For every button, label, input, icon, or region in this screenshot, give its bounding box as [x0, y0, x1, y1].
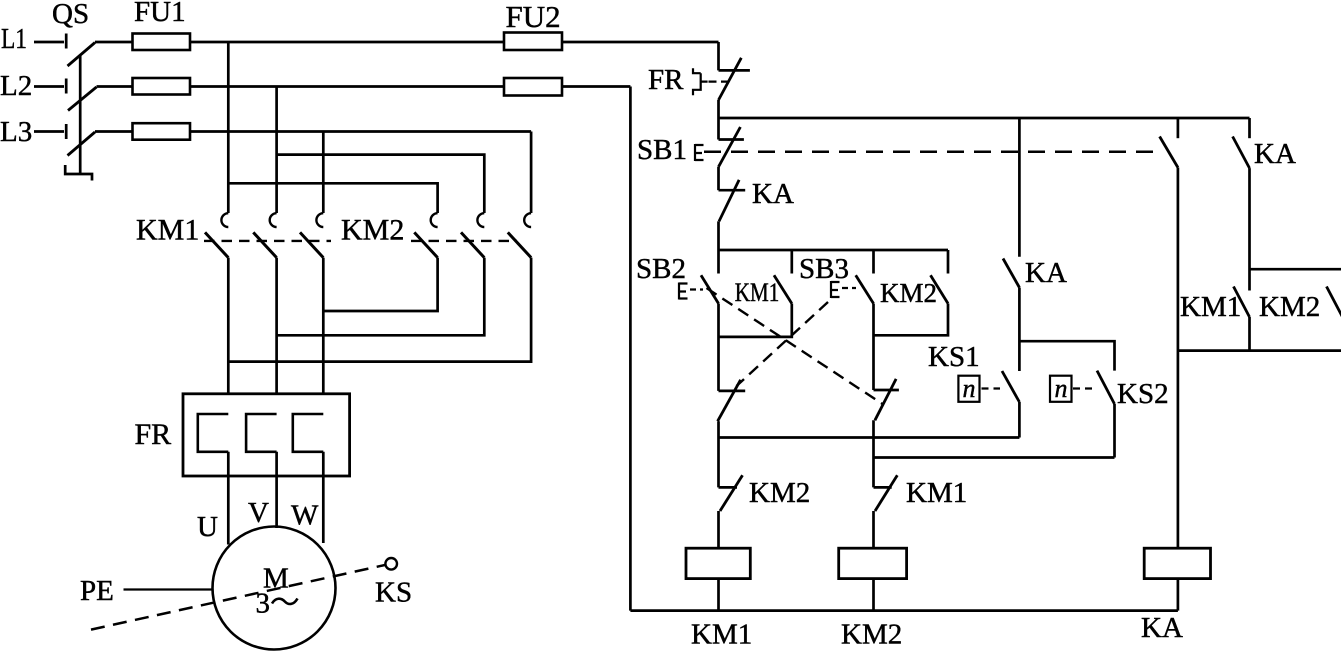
contact KM2 aux blade: [931, 275, 949, 303]
svg-text:U: U: [197, 511, 218, 543]
svg-text:KM1: KM1: [691, 619, 752, 651]
button SB2 actuator dashes: [690, 288, 703, 290]
svg-text:KS2: KS2: [1117, 378, 1169, 410]
wire SB2 lower: [717, 304, 720, 391]
button SB1 NO contact blade: [1160, 137, 1178, 168]
wire below FR contact: [717, 100, 720, 140]
wire KM2 pole3 feed: [530, 132, 533, 214]
svg-text:KS: KS: [375, 577, 412, 609]
wire KM2 pole2 out: [277, 258, 485, 336]
wire below SB3 NC contact: [717, 421, 720, 487]
svg-text:KM2: KM2: [341, 214, 404, 247]
svg-text:KM1: KM1: [735, 278, 780, 307]
button SB3 interlock dashed link: [737, 302, 829, 386]
relay contact KA self-hold blade: [1233, 137, 1250, 169]
svg-text:KS1: KS1: [928, 341, 980, 373]
wire L3 lead: [34, 130, 64, 133]
wire left control rail: [629, 87, 632, 611]
wire KS2 rail: [874, 456, 1115, 459]
wire hold branch bottom rail: [1178, 349, 1341, 352]
svg-text:KA: KA: [1025, 257, 1067, 289]
fuse FU2 pole 2: [504, 78, 562, 96]
wire coil KM1 to rail: [717, 579, 720, 611]
svg-text:FU2: FU2: [506, 0, 561, 34]
wire KS2 branch feed: [1019, 341, 1114, 370]
contactor KM1 pole2 blade: [253, 232, 276, 257]
wire KM2 aux lower: [874, 304, 949, 336]
wire control column from L1: [717, 42, 720, 70]
interlock contact KM1 bar: [874, 486, 892, 489]
wire KM2 parallel branch feed: [1250, 269, 1341, 290]
button SB3 actuator E: [831, 281, 840, 298]
contact KM1 aux blade: [774, 275, 792, 303]
wire motor lead V: [275, 452, 278, 528]
button SB2 interlock dashed link: [707, 288, 883, 404]
thermal relay FR heater 3: [293, 414, 324, 452]
wire KM2 pole1 feed: [228, 183, 437, 213]
wire motor lead U: [227, 452, 230, 545]
speed switch KS1 n box: [958, 376, 979, 402]
coil KM2: [839, 548, 907, 578]
fuse FU1 pole 1: [133, 34, 191, 51]
relay contact KA stop bar: [719, 189, 746, 192]
relay branch contact KA upper wire: [1018, 118, 1021, 257]
thermal contact FR blade: [719, 58, 742, 100]
wire to coil KM1: [717, 511, 720, 548]
thermal contact FR actuator dashes: [709, 80, 730, 82]
wire L1 lead: [34, 41, 64, 44]
thermal contact FR bar: [719, 69, 750, 72]
wire KM1 pole2 out: [275, 258, 278, 414]
contactor KM2 pole1 fixed contact arc: [431, 213, 438, 227]
wire KM2 aux upper: [947, 250, 950, 274]
svg-text:L2: L2: [0, 70, 32, 102]
button SB3 blade: [856, 275, 874, 303]
svg-text:KM2: KM2: [749, 477, 810, 509]
switch QS pole 3 blade: [68, 132, 96, 156]
svg-text:KA: KA: [1141, 612, 1183, 644]
button SB3 NC contact bar: [719, 390, 746, 393]
wire SB2 upper: [717, 250, 720, 274]
svg-text:W: W: [291, 500, 319, 532]
svg-text:SB1: SB1: [637, 134, 687, 166]
wire below KM1 hold: [1248, 317, 1251, 351]
wire below KA self-hold: [1248, 168, 1251, 290]
wire bottom control rail: [630, 609, 1178, 612]
speed sensor KS shaft dashed line: [91, 565, 385, 630]
contactor KM2 pole2 fixed contact arc: [477, 213, 484, 227]
button SB2 NC contact blade: [875, 379, 896, 420]
wire right column: [1177, 168, 1180, 549]
speed switch KS2 dashes: [1073, 387, 1095, 389]
speed switch KS2 blade: [1097, 371, 1115, 404]
motor M circle: [213, 527, 336, 650]
wire below KA contact: [717, 221, 720, 250]
switch QS pole 1 blade: [68, 43, 96, 67]
wire L2 lead: [34, 85, 64, 88]
contactor KM1-KM2 linkage dashes left: [204, 240, 331, 242]
button SB1 blade: [719, 127, 741, 167]
wire KS2 to rail: [1113, 404, 1116, 458]
svg-text:KM1: KM1: [136, 214, 199, 247]
contactor KM1 pole3 blade: [300, 232, 323, 257]
fuse FU1 pole 3: [133, 123, 191, 140]
interlock contact KM2 bar: [719, 486, 738, 489]
contactor KM1 pole1 fixed contact arc: [221, 213, 228, 227]
svg-text:KM1: KM1: [1180, 291, 1241, 323]
wire top rail of control circuit: [719, 117, 1250, 120]
wire coil KA to rail: [1177, 579, 1180, 611]
contact KM1 hold blade: [1234, 287, 1250, 318]
motor tilde mark: [272, 599, 298, 604]
wire L3 phase line: [95, 130, 531, 133]
coil KA: [1144, 548, 1210, 578]
svg-text:FR: FR: [135, 418, 172, 451]
svg-text:KM2: KM2: [880, 278, 937, 308]
wire phase W drop: [322, 132, 325, 214]
contactor KM2 pole2 blade: [461, 232, 484, 257]
svg-text:KM1: KM1: [906, 477, 967, 509]
svg-text:QS: QS: [52, 0, 89, 30]
svg-text:FR: FR: [648, 64, 684, 96]
contact KM2 hold blade: [1327, 287, 1341, 318]
svg-text:V: V: [248, 497, 269, 529]
button SB3 actuator dashes: [842, 287, 856, 289]
button SB2 actuator E: [679, 283, 688, 300]
wire KM2 pole1 out: [323, 258, 437, 311]
wire KM1 aux lower: [719, 304, 792, 337]
speed switch KS1 blade: [1002, 371, 1019, 402]
button SB1 stop bar: [719, 138, 744, 141]
wire KS1 to rail: [1018, 402, 1021, 438]
wire below SB1: [717, 167, 720, 190]
svg-text:KA: KA: [752, 178, 794, 210]
wire motor lead W: [322, 452, 325, 543]
contactor KM2 pole1 blade: [414, 232, 437, 257]
contactor KM2 pole3 blade: [508, 232, 531, 257]
contactor KM2 pole3 fixed contact arc: [524, 213, 531, 227]
svg-text:L3: L3: [0, 116, 32, 148]
contactor KM1 pole2 fixed contact arc: [270, 213, 277, 227]
svg-text:KM2: KM2: [1259, 291, 1320, 323]
button SB2 blade: [701, 275, 719, 303]
wire phase U drop: [227, 42, 230, 213]
svg-text:FU1: FU1: [134, 0, 186, 28]
button SB2 NC contact bar: [874, 389, 899, 392]
svg-text:L1: L1: [1, 23, 27, 55]
interlock contact KM1 blade: [875, 475, 897, 511]
thermal relay FR heater 2: [246, 414, 277, 452]
svg-text:SB2: SB2: [636, 253, 686, 285]
wire SB3 upper: [872, 250, 875, 274]
switch QS pole 3 fixed contact: [65, 124, 68, 139]
switch QS pole 2 blade: [68, 87, 97, 111]
fuse FU1 pole 2: [133, 78, 191, 95]
svg-text:PE: PE: [80, 575, 114, 607]
switch QS linkage bar: [65, 56, 92, 181]
wire L1 phase line: [95, 41, 719, 44]
button SB3 NC contact blade: [718, 380, 741, 421]
relay contact KA blade: [719, 180, 739, 221]
wire coil KM2 to rail: [872, 579, 875, 611]
wire L2 phase line: [97, 85, 631, 88]
button SB1 actuator E: [695, 144, 704, 161]
contactor KM1 pole3 fixed contact arc: [316, 213, 323, 227]
switch QS pole 1 fixed contact: [65, 34, 68, 49]
svg-text:KA: KA: [1254, 138, 1296, 170]
interlock contact KM2 blade: [720, 475, 743, 511]
thermal relay FR box: [183, 394, 350, 476]
svg-text:KM2: KM2: [841, 619, 902, 651]
wire KM1 aux upper: [790, 250, 793, 274]
wire below SB2 NC contact: [872, 420, 875, 487]
wire below KA branch contact: [1018, 288, 1021, 372]
wire KM2 pole2 feed: [277, 155, 485, 213]
speed sensor KS circle: [385, 558, 397, 570]
wire PE lead: [124, 588, 213, 590]
wire start-branch rail: [719, 249, 949, 252]
wire KM1 pole1 out: [227, 258, 230, 414]
svg-text:n: n: [1055, 374, 1068, 403]
svg-text:n: n: [963, 374, 976, 403]
svg-text:SB3: SB3: [799, 253, 849, 285]
button SB1 NO contact upper wire: [1177, 118, 1180, 138]
switch QS pole 2 fixed contact: [65, 79, 68, 94]
wire KS1 rail: [719, 436, 1020, 439]
relay branch contact KA blade: [1003, 259, 1019, 288]
thermal contact FR actuator bracket: [693, 68, 708, 95]
speed switch KS1 dashes: [982, 387, 1001, 389]
fuse FU2 pole 1: [504, 33, 562, 51]
wire KM1 pole3 out: [322, 258, 325, 414]
wire SB3 lower: [872, 304, 875, 391]
thermal relay FR heater 1: [198, 414, 229, 452]
wire to coil KM2: [872, 511, 875, 548]
relay contact KA self-hold upper wire: [1248, 118, 1251, 138]
coil KM1: [686, 548, 750, 578]
contactor KM1 pole1 blade: [205, 232, 228, 257]
wire phase V drop: [275, 87, 278, 214]
button SB1 linkage dashes: [704, 150, 1163, 153]
wire KM2 pole3 out: [228, 258, 531, 362]
speed switch KS2 n box: [1050, 376, 1072, 402]
contactor KM1-KM2 linkage dashes right: [411, 240, 517, 242]
